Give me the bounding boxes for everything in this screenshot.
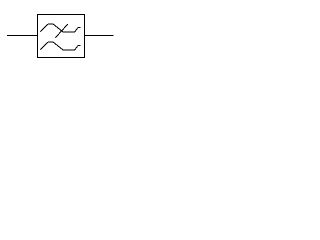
- wire: right pin: [85, 35, 114, 37]
- bottom sine wave (passed low frequency): [40, 42, 80, 50]
- wire: left pin: [7, 35, 37, 37]
- filter box body: [38, 15, 85, 58]
- slash across top wave: [56, 24, 68, 38]
- top sine wave (blocked high frequency): [40, 24, 80, 32]
